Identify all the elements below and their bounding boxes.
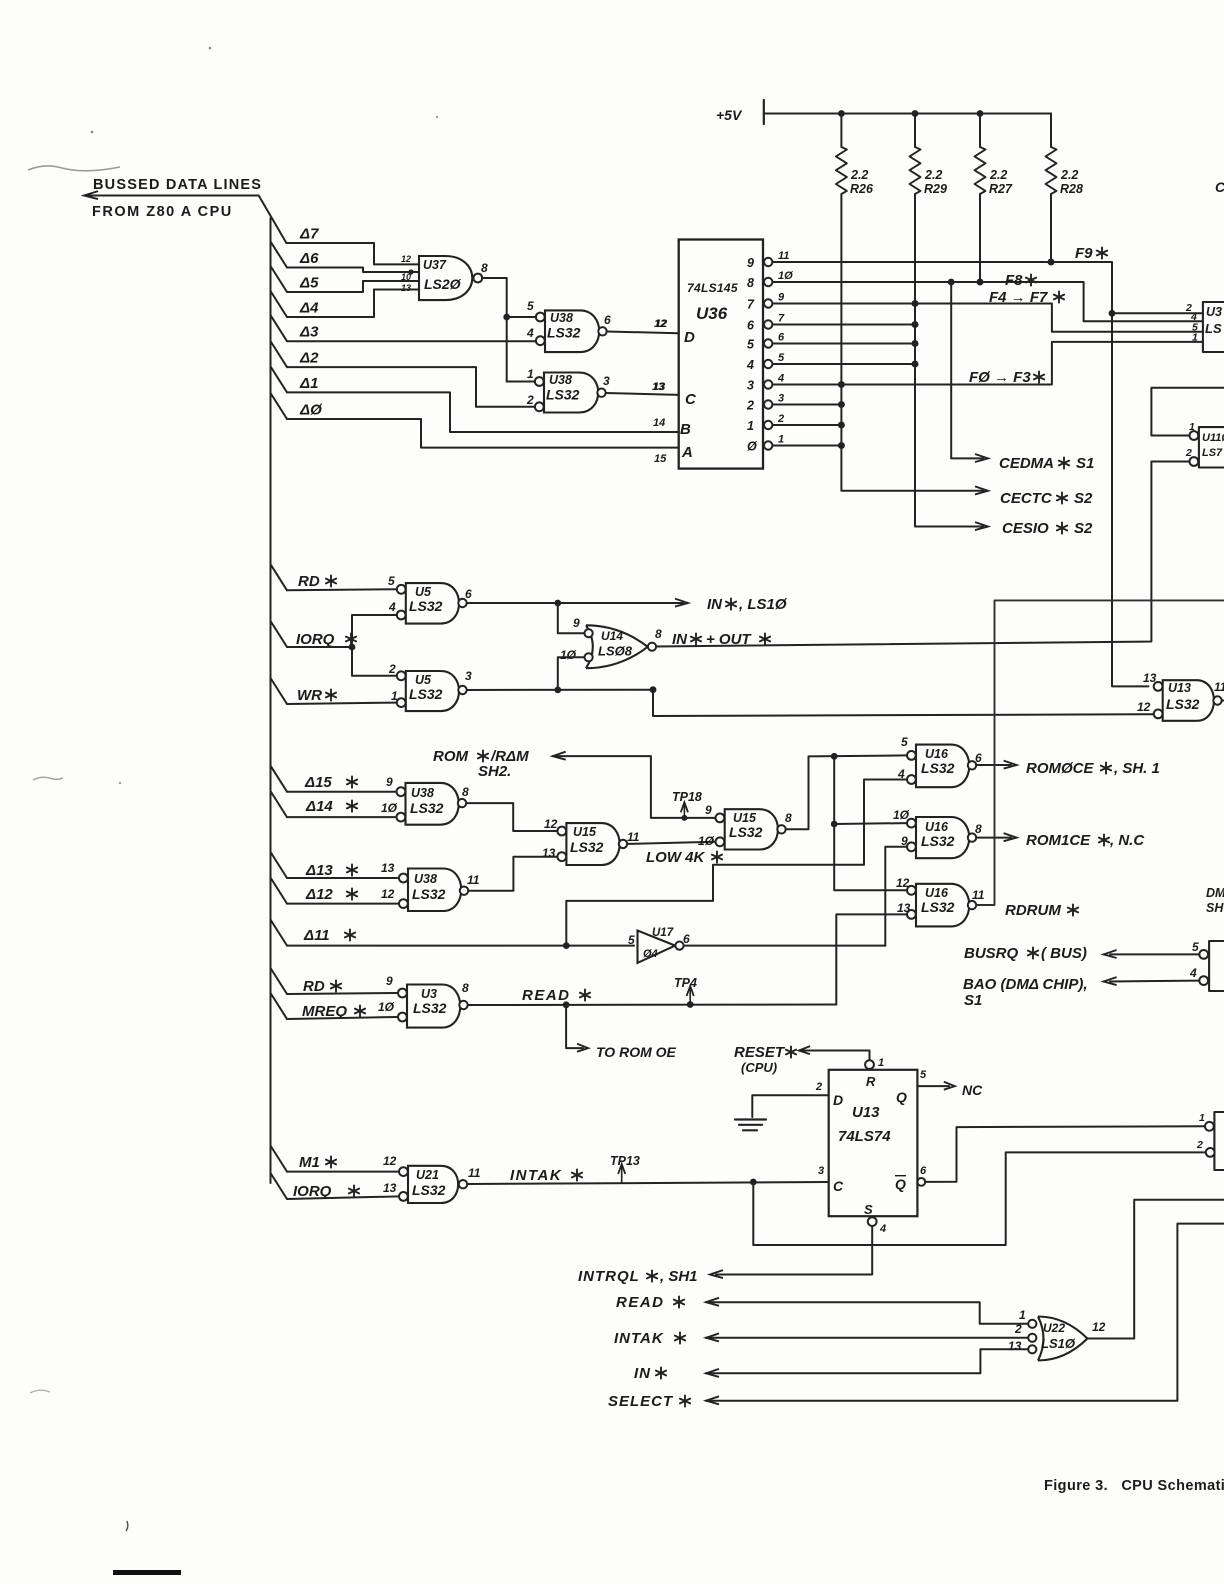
- svg-text:4: 4: [777, 373, 784, 385]
- svg-text:13: 13: [1143, 671, 1157, 685]
- net label IN* LS10: [707, 596, 788, 613]
- svg-text:C: C: [1215, 179, 1224, 195]
- wire U13 Q-bar to gate pin 1 right edge: [917, 1126, 1205, 1186]
- wire CESIO* S2 output: [975, 522, 988, 530]
- net label CEDMA* S1: [999, 455, 1094, 472]
- svg-text:9: 9: [705, 803, 712, 817]
- wire INTAK* net to U13 C: [467, 1179, 828, 1186]
- wire U36 output 4 to pullup: [772, 361, 918, 368]
- wire U15 pin 11 to U15 pin 10: [627, 842, 715, 844]
- wire U16 pin 13 from READ* tap: [836, 914, 906, 1004]
- svg-text:IN: IN: [707, 596, 723, 613]
- net label F4 to F7*: [989, 289, 1064, 306]
- svg-text:6: 6: [465, 587, 472, 601]
- net label NC: [962, 1082, 983, 1098]
- wire SELECT* bottom from sheet edge: [706, 1224, 1224, 1405]
- svg-text:1: 1: [1199, 1112, 1205, 1124]
- svg-text:1Ø: 1Ø: [560, 648, 577, 662]
- wire U16 pin 9 from U17 output: [885, 847, 906, 946]
- svg-text:Δ3: Δ3: [299, 324, 319, 341]
- wire U36 output 6 to pullup: [772, 321, 918, 328]
- wire U5 pin3 OUT* net: [467, 686, 1153, 716]
- svg-text:12: 12: [383, 1154, 397, 1168]
- stray scan mark upper-left: [28, 166, 120, 171]
- svg-text:INTAK: INTAK: [614, 1330, 664, 1347]
- wire U38 pin6 to U36 D: [607, 318, 679, 333]
- net label INTAK* bottom: [614, 1330, 685, 1347]
- wire OUT* branch to U14 pin 10: [558, 657, 584, 690]
- svg-text:Ø: Ø: [747, 440, 758, 454]
- svg-text:TP18: TP18: [672, 790, 702, 804]
- svg-text:Δ13: Δ13: [305, 862, 333, 879]
- svg-text:8: 8: [747, 276, 754, 290]
- svg-text:BUSSED DATA LINES: BUSSED DATA LINES: [93, 177, 262, 193]
- svg-text:2: 2: [388, 662, 396, 676]
- wire WR*: [271, 678, 397, 704]
- svg-text:2.2: 2.2: [1060, 168, 1078, 182]
- wire A6: [271, 242, 420, 275]
- wire CECTC* S2 output: [975, 486, 988, 494]
- svg-text:4: 4: [879, 1223, 886, 1235]
- wire IORQ* lower: [271, 1173, 399, 1199]
- wire U22 output to sheet edge: [1087, 1200, 1224, 1339]
- svg-text:LS32: LS32: [412, 1182, 446, 1198]
- svg-text:NC: NC: [962, 1082, 983, 1098]
- svg-text:R27: R27: [989, 182, 1013, 196]
- svg-text:RESET: RESET: [734, 1044, 786, 1061]
- svg-text:4: 4: [746, 358, 754, 372]
- wire U13g output to sheet edge: [1222, 700, 1224, 702]
- svg-text:Δ1: Δ1: [299, 375, 318, 392]
- wire BAO output: [1104, 977, 1200, 985]
- node A4: [299, 300, 319, 317]
- wire MREQ*: [271, 993, 397, 1019]
- svg-text:, LS1Ø: , LS1Ø: [738, 596, 788, 613]
- svg-text:5: 5: [628, 933, 635, 947]
- svg-text:13: 13: [381, 861, 395, 875]
- svg-text:BUSRQ: BUSRQ: [964, 945, 1019, 962]
- node A1: [299, 375, 318, 392]
- nand gate U22 LS10 (pins 1,2,13 to 12): [1008, 1308, 1106, 1361]
- ground: [735, 1120, 766, 1131]
- svg-text:U38: U38: [549, 373, 572, 387]
- svg-text:S1: S1: [964, 992, 982, 1009]
- svg-text:Q: Q: [895, 1176, 906, 1192]
- wire IN* LS10 net from U5 pin 6: [467, 599, 688, 607]
- svg-text:R28: R28: [1060, 182, 1083, 196]
- svg-text:1: 1: [747, 419, 754, 433]
- net label RESET* (CPU): [734, 1044, 796, 1075]
- svg-text:2: 2: [815, 1081, 822, 1093]
- svg-text:8: 8: [462, 785, 469, 799]
- svg-text:S2: S2: [1074, 520, 1093, 537]
- svg-text:2: 2: [1185, 447, 1192, 459]
- svg-text:6: 6: [920, 1165, 927, 1177]
- svg-text:(CPU): (CPU): [741, 1060, 777, 1075]
- svg-text:11: 11: [467, 873, 480, 887]
- node IORQ*: [296, 631, 356, 648]
- svg-text:13: 13: [897, 901, 911, 915]
- svg-text:12: 12: [544, 817, 558, 831]
- svg-text:8: 8: [975, 822, 982, 836]
- svg-text:Δ2: Δ2: [299, 350, 319, 367]
- svg-text:15: 15: [654, 453, 667, 465]
- wire READ* bottom to U22 pin 1: [706, 1298, 1027, 1324]
- or gate U16 (pins 12,13 to 11) RDRUM: [896, 876, 985, 926]
- svg-text:4: 4: [1189, 966, 1197, 980]
- svg-text:LS32: LS32: [547, 325, 581, 341]
- svg-text:RD: RD: [303, 978, 325, 995]
- node RD* (lower): [303, 978, 341, 995]
- test point TP4: [674, 976, 697, 1005]
- net label F9*: [1075, 245, 1107, 262]
- svg-text:U3: U3: [1206, 305, 1222, 319]
- node RD*: [298, 573, 336, 590]
- or gate U15 (pins 12,13 to 11) LOW4K: [542, 817, 640, 865]
- scan artifact specks: [91, 47, 439, 785]
- svg-text:R: R: [866, 1074, 876, 1089]
- svg-text:1: 1: [1192, 332, 1198, 344]
- svg-text:5: 5: [1192, 940, 1199, 954]
- svg-text:2.2: 2.2: [850, 168, 868, 182]
- svg-text:ROMØCE: ROMØCE: [1026, 760, 1094, 777]
- or gate U5 (pins 5,4 to 6): [388, 574, 472, 624]
- svg-text:5: 5: [778, 352, 785, 364]
- svg-text:U38: U38: [550, 311, 573, 325]
- caption Figure 3 CPU Schematic: [1044, 1478, 1224, 1494]
- svg-text:F9: F9: [1075, 245, 1093, 262]
- svg-text:14: 14: [653, 417, 665, 429]
- svg-text:11: 11: [627, 830, 640, 844]
- wire U38 pin 8 to U15 pin 12: [466, 803, 556, 831]
- svg-text:7: 7: [778, 313, 785, 325]
- svg-text:Δ7: Δ7: [299, 226, 319, 243]
- svg-text:5: 5: [901, 735, 908, 749]
- net label CECTC* S2: [1000, 490, 1093, 507]
- svg-text:F4 → F7: F4 → F7: [989, 289, 1048, 306]
- svg-text:6: 6: [778, 332, 785, 344]
- svg-text:Ø4: Ø4: [643, 948, 658, 960]
- svg-text:2: 2: [1014, 1322, 1022, 1336]
- svg-text:R29: R29: [924, 182, 947, 196]
- svg-text:6: 6: [604, 313, 611, 327]
- svg-text:RDRUM: RDRUM: [1005, 902, 1061, 919]
- svg-text:13: 13: [652, 381, 664, 393]
- svg-text:6: 6: [975, 751, 982, 765]
- svg-text:11: 11: [972, 888, 985, 902]
- wire CEDMA* S1 output: [951, 282, 988, 462]
- svg-text:C: C: [685, 391, 697, 408]
- svg-text:4: 4: [526, 326, 534, 340]
- wire INTRQL* SH1: [578, 1268, 698, 1285]
- wire U36 output 1 to pullup: [772, 422, 844, 429]
- decoder U36 74LS145: [652, 240, 793, 469]
- svg-text:U5: U5: [415, 673, 432, 687]
- wire bussed-data-lines arrow to Z80 bus: [84, 191, 286, 243]
- svg-text:B: B: [680, 421, 691, 438]
- net label SELECT* bottom: [608, 1393, 690, 1410]
- svg-text:5: 5: [527, 299, 534, 313]
- nand gate U37 LS20: [419, 256, 488, 300]
- svg-text:ROM1CE: ROM1CE: [1026, 832, 1091, 849]
- svg-text:LSØ8: LSØ8: [598, 644, 633, 659]
- test point TP13: [610, 1154, 640, 1182]
- wire A3: [271, 315, 537, 341]
- svg-text:LS32: LS32: [412, 886, 446, 902]
- svg-text:1Ø: 1Ø: [381, 801, 398, 815]
- net label IN* bottom: [634, 1365, 666, 1382]
- wire IORQ* to U5 pins 4 and 2: [271, 615, 397, 676]
- node WR*: [297, 687, 336, 704]
- net label INTAK*: [510, 1167, 582, 1184]
- svg-text:U13: U13: [852, 1104, 880, 1121]
- svg-text:LS7: LS7: [1202, 447, 1223, 459]
- svg-text:LS32: LS32: [409, 686, 443, 702]
- wire U5 pin6 branch to U14 pin 9: [558, 603, 584, 633]
- scan artifact comma mark: [126, 1521, 128, 1531]
- power +5V rail: [716, 100, 1051, 124]
- svg-text:12: 12: [401, 254, 411, 264]
- wire ROM1CE* output: [976, 833, 1016, 841]
- scan artifact left margin mark: [33, 777, 63, 780]
- svg-text:, N.C: , N.C: [1109, 832, 1145, 849]
- scan artifact left margin mark 2: [30, 1390, 50, 1393]
- svg-text:LS32: LS32: [1166, 696, 1200, 712]
- pin 12 of U37: [401, 254, 411, 264]
- gate partial at right edge BUSRQ/BAO: [1189, 940, 1224, 991]
- svg-text:8: 8: [462, 981, 469, 995]
- svg-text:ΔØ: ΔØ: [299, 402, 323, 419]
- scan artifact bottom left bar: [113, 1570, 181, 1575]
- svg-text:4: 4: [388, 600, 396, 614]
- svg-text:11: 11: [1214, 680, 1224, 694]
- wire A14*: [271, 791, 395, 817]
- wire TO ROM OE branch: [566, 1005, 588, 1052]
- wire A5: [271, 266, 420, 292]
- net label ROM0CE* SH.1: [1026, 760, 1160, 777]
- svg-text:12: 12: [381, 887, 395, 901]
- node A6: [299, 250, 319, 267]
- svg-text:BAO (DMΔ CHIP),: BAO (DMΔ CHIP),: [963, 976, 1088, 993]
- svg-text:Δ15: Δ15: [304, 774, 332, 791]
- or gate U16 (pins 10,9 to 8) ROM1CE: [893, 808, 982, 858]
- net label IN*+OUT*: [672, 631, 770, 648]
- node M1*: [299, 1154, 336, 1171]
- svg-text:D: D: [684, 329, 695, 346]
- wire U36 pin2 branch to top-right gate pin 2: [1112, 312, 1203, 314]
- svg-text:U15: U15: [573, 825, 597, 839]
- svg-text:5: 5: [388, 574, 395, 588]
- or gate U38 (pins 9,10 to 8): [381, 775, 469, 825]
- or gate U38 (pins 13,12 to 11): [399, 869, 480, 912]
- svg-text:LS32: LS32: [413, 1000, 447, 1016]
- svg-text:2: 2: [777, 413, 784, 425]
- wire address bus vertical: [270, 218, 272, 1183]
- svg-text:LS32: LS32: [921, 833, 955, 849]
- node A7: [299, 226, 319, 243]
- svg-text:LS32: LS32: [921, 760, 955, 776]
- svg-text:INTAK: INTAK: [510, 1167, 562, 1184]
- svg-text:U22: U22: [1043, 1321, 1065, 1335]
- net label TO ROM OE: [596, 1044, 677, 1060]
- wire A1: [271, 366, 679, 432]
- node A2: [299, 350, 319, 367]
- svg-text:U11Ø: U11Ø: [1202, 432, 1224, 444]
- or gate U21 (pins 12,13 to 11) INTAK: [399, 1166, 481, 1203]
- svg-text:LS32: LS32: [409, 598, 443, 614]
- svg-text:6: 6: [747, 319, 755, 333]
- svg-text:FROM Z80 A CPU: FROM Z80 A CPU: [92, 204, 233, 220]
- or gate U38 (pins 5,4 to 6): [526, 299, 611, 352]
- svg-text:8: 8: [481, 261, 488, 275]
- net label F8*: [1005, 272, 1036, 289]
- svg-text:Δ14: Δ14: [305, 798, 333, 815]
- wire U17 output to U16 pin 9: [684, 945, 886, 947]
- svg-text:1: 1: [778, 434, 784, 446]
- svg-text:1: 1: [527, 367, 534, 381]
- svg-text:2.2: 2.2: [924, 168, 942, 182]
- wire BUSRQ* output: [1104, 950, 1200, 958]
- node A15*: [304, 774, 357, 791]
- wire U37 output to U38 pins 5 and 1: [483, 278, 536, 382]
- svg-text:TP4: TP4: [674, 976, 697, 990]
- node A3: [299, 324, 319, 341]
- svg-text:S2: S2: [1074, 490, 1093, 507]
- svg-text:1: 1: [1189, 421, 1195, 433]
- svg-text:2: 2: [1196, 1139, 1203, 1151]
- wire A0: [271, 393, 679, 448]
- svg-text:1Ø: 1Ø: [893, 808, 910, 822]
- gate U3x 4-input partial at right edge: [1185, 302, 1224, 352]
- svg-text:Δ11: Δ11: [303, 927, 330, 944]
- node A13*: [305, 862, 357, 879]
- net label ROM*/RAM SH2: [433, 748, 529, 780]
- svg-text:( BUS): ( BUS): [1041, 945, 1087, 962]
- resistor R29 2.2k: [910, 110, 984, 526]
- svg-text:SELECT: SELECT: [608, 1393, 674, 1410]
- wire F4-F7* net from U36 output 7: [772, 300, 1203, 332]
- svg-text:12: 12: [896, 876, 910, 890]
- svg-text:2.2: 2.2: [989, 168, 1007, 182]
- node A5: [299, 275, 319, 292]
- wire IN* bottom to U22 pin 13: [706, 1349, 1027, 1377]
- svg-text:SH2.: SH2.: [478, 763, 511, 780]
- wire F8* net from U36 output 8: [772, 279, 1203, 322]
- wire A4: [271, 290, 420, 318]
- svg-text:Figure 3. CPU Schematic: Figure 3. CPU Schematic: [1044, 1478, 1224, 1494]
- or gate U3 (pins 9,10 to 8) READ: [398, 981, 469, 1028]
- svg-text:Δ12: Δ12: [305, 886, 333, 903]
- svg-text:1Ø: 1Ø: [378, 1000, 395, 1014]
- net label LOW 4K*: [646, 849, 722, 866]
- svg-text:12: 12: [654, 318, 666, 330]
- svg-text:1Ø: 1Ø: [778, 270, 793, 282]
- svg-text:13: 13: [542, 846, 556, 860]
- svg-text:TO ROM OE: TO ROM OE: [596, 1044, 677, 1060]
- flip-flop U13 74LS74: [815, 1057, 927, 1235]
- svg-text:8: 8: [655, 627, 662, 641]
- net label FROM Z80 A CPU: [92, 204, 233, 220]
- svg-text:LS: LS: [1205, 321, 1222, 336]
- svg-text:U17: U17: [652, 927, 674, 939]
- svg-text:LS32: LS32: [729, 824, 763, 840]
- svg-text:1: 1: [391, 689, 398, 703]
- svg-text:A: A: [681, 444, 693, 461]
- wire A15*: [271, 766, 395, 792]
- node IORQ* (lower): [293, 1183, 359, 1200]
- svg-text:DMΔ: DMΔ: [1206, 886, 1224, 900]
- svg-text:S1: S1: [1076, 455, 1094, 472]
- wire RD*: [271, 564, 396, 590]
- wire U36 output 2 to pullup: [772, 401, 844, 408]
- svg-text:ROM: ROM: [433, 748, 469, 765]
- svg-text:U16: U16: [925, 820, 949, 834]
- wire READ* net: [468, 1001, 837, 1008]
- svg-text:INTRQL: INTRQL: [578, 1268, 640, 1285]
- and gate U14 LS08 (pins 9,10 to 8): [560, 616, 662, 668]
- node A11*: [303, 927, 355, 944]
- wire U13 Q to NC: [917, 1082, 954, 1090]
- net label BUSSED DATA LINES: [93, 177, 262, 193]
- svg-text:11: 11: [778, 250, 789, 262]
- resistor R28 2.2k: [1046, 114, 1083, 266]
- wire U13 D input to ground: [752, 1095, 828, 1117]
- or gate U16 (pins 5,4 to 6) ROM0CE: [897, 735, 982, 787]
- svg-text:D: D: [833, 1092, 843, 1108]
- svg-text:READ: READ: [522, 987, 571, 1004]
- svg-text:7: 7: [747, 298, 755, 312]
- svg-text:U15: U15: [733, 811, 757, 825]
- node A14*: [305, 798, 357, 815]
- svg-text:, SH. 1: , SH. 1: [1113, 760, 1160, 777]
- svg-text:13: 13: [383, 1181, 397, 1195]
- svg-text:U5: U5: [415, 585, 432, 599]
- wire U13 S to INTRQL net: [710, 1226, 872, 1278]
- svg-text:LS32: LS32: [570, 839, 604, 855]
- svg-text:13: 13: [1008, 1339, 1022, 1353]
- svg-text:CECTC: CECTC: [1000, 490, 1053, 507]
- resistor R27 2.2k: [975, 110, 1013, 285]
- svg-text:READ: READ: [616, 1294, 665, 1311]
- svg-text:3: 3: [747, 379, 754, 393]
- wire ROM*/RAM to U15 pin 9: [553, 752, 716, 818]
- svg-text:SH: SH: [1206, 901, 1224, 915]
- svg-text:R26: R26: [850, 182, 874, 196]
- svg-text:LS2Ø: LS2Ø: [424, 276, 462, 292]
- svg-text:IN: IN: [634, 1365, 651, 1382]
- wire IN*+OUT* net from U14 pin 8 to gate pin 2 upper right: [656, 462, 1189, 647]
- svg-text:12: 12: [1137, 700, 1151, 714]
- node A12*: [305, 886, 357, 903]
- svg-text:U21: U21: [416, 1168, 439, 1182]
- svg-text:FØ → F3: FØ → F3: [969, 369, 1031, 386]
- net label DMA SH: [1206, 886, 1224, 915]
- net label ROM1CE* N.C: [1026, 832, 1145, 849]
- svg-text:74LS145: 74LS145: [687, 281, 738, 295]
- svg-text:3: 3: [818, 1165, 824, 1177]
- svg-text:U38: U38: [414, 872, 437, 886]
- or gate U15 (pins 9,10 to 8): [698, 803, 792, 850]
- svg-text:3: 3: [465, 669, 472, 683]
- svg-text:9: 9: [573, 616, 580, 630]
- svg-text:RD: RD: [298, 573, 320, 590]
- wire M1*: [271, 1146, 399, 1172]
- wire INTAK* bottom to U22 pin 2: [706, 1333, 1027, 1341]
- svg-text:13: 13: [401, 283, 411, 293]
- or gate U13 (pins 13,12 to 11) right edge: [1137, 671, 1224, 721]
- svg-text:LS32: LS32: [546, 387, 580, 403]
- svg-text:CEDMA: CEDMA: [999, 455, 1054, 472]
